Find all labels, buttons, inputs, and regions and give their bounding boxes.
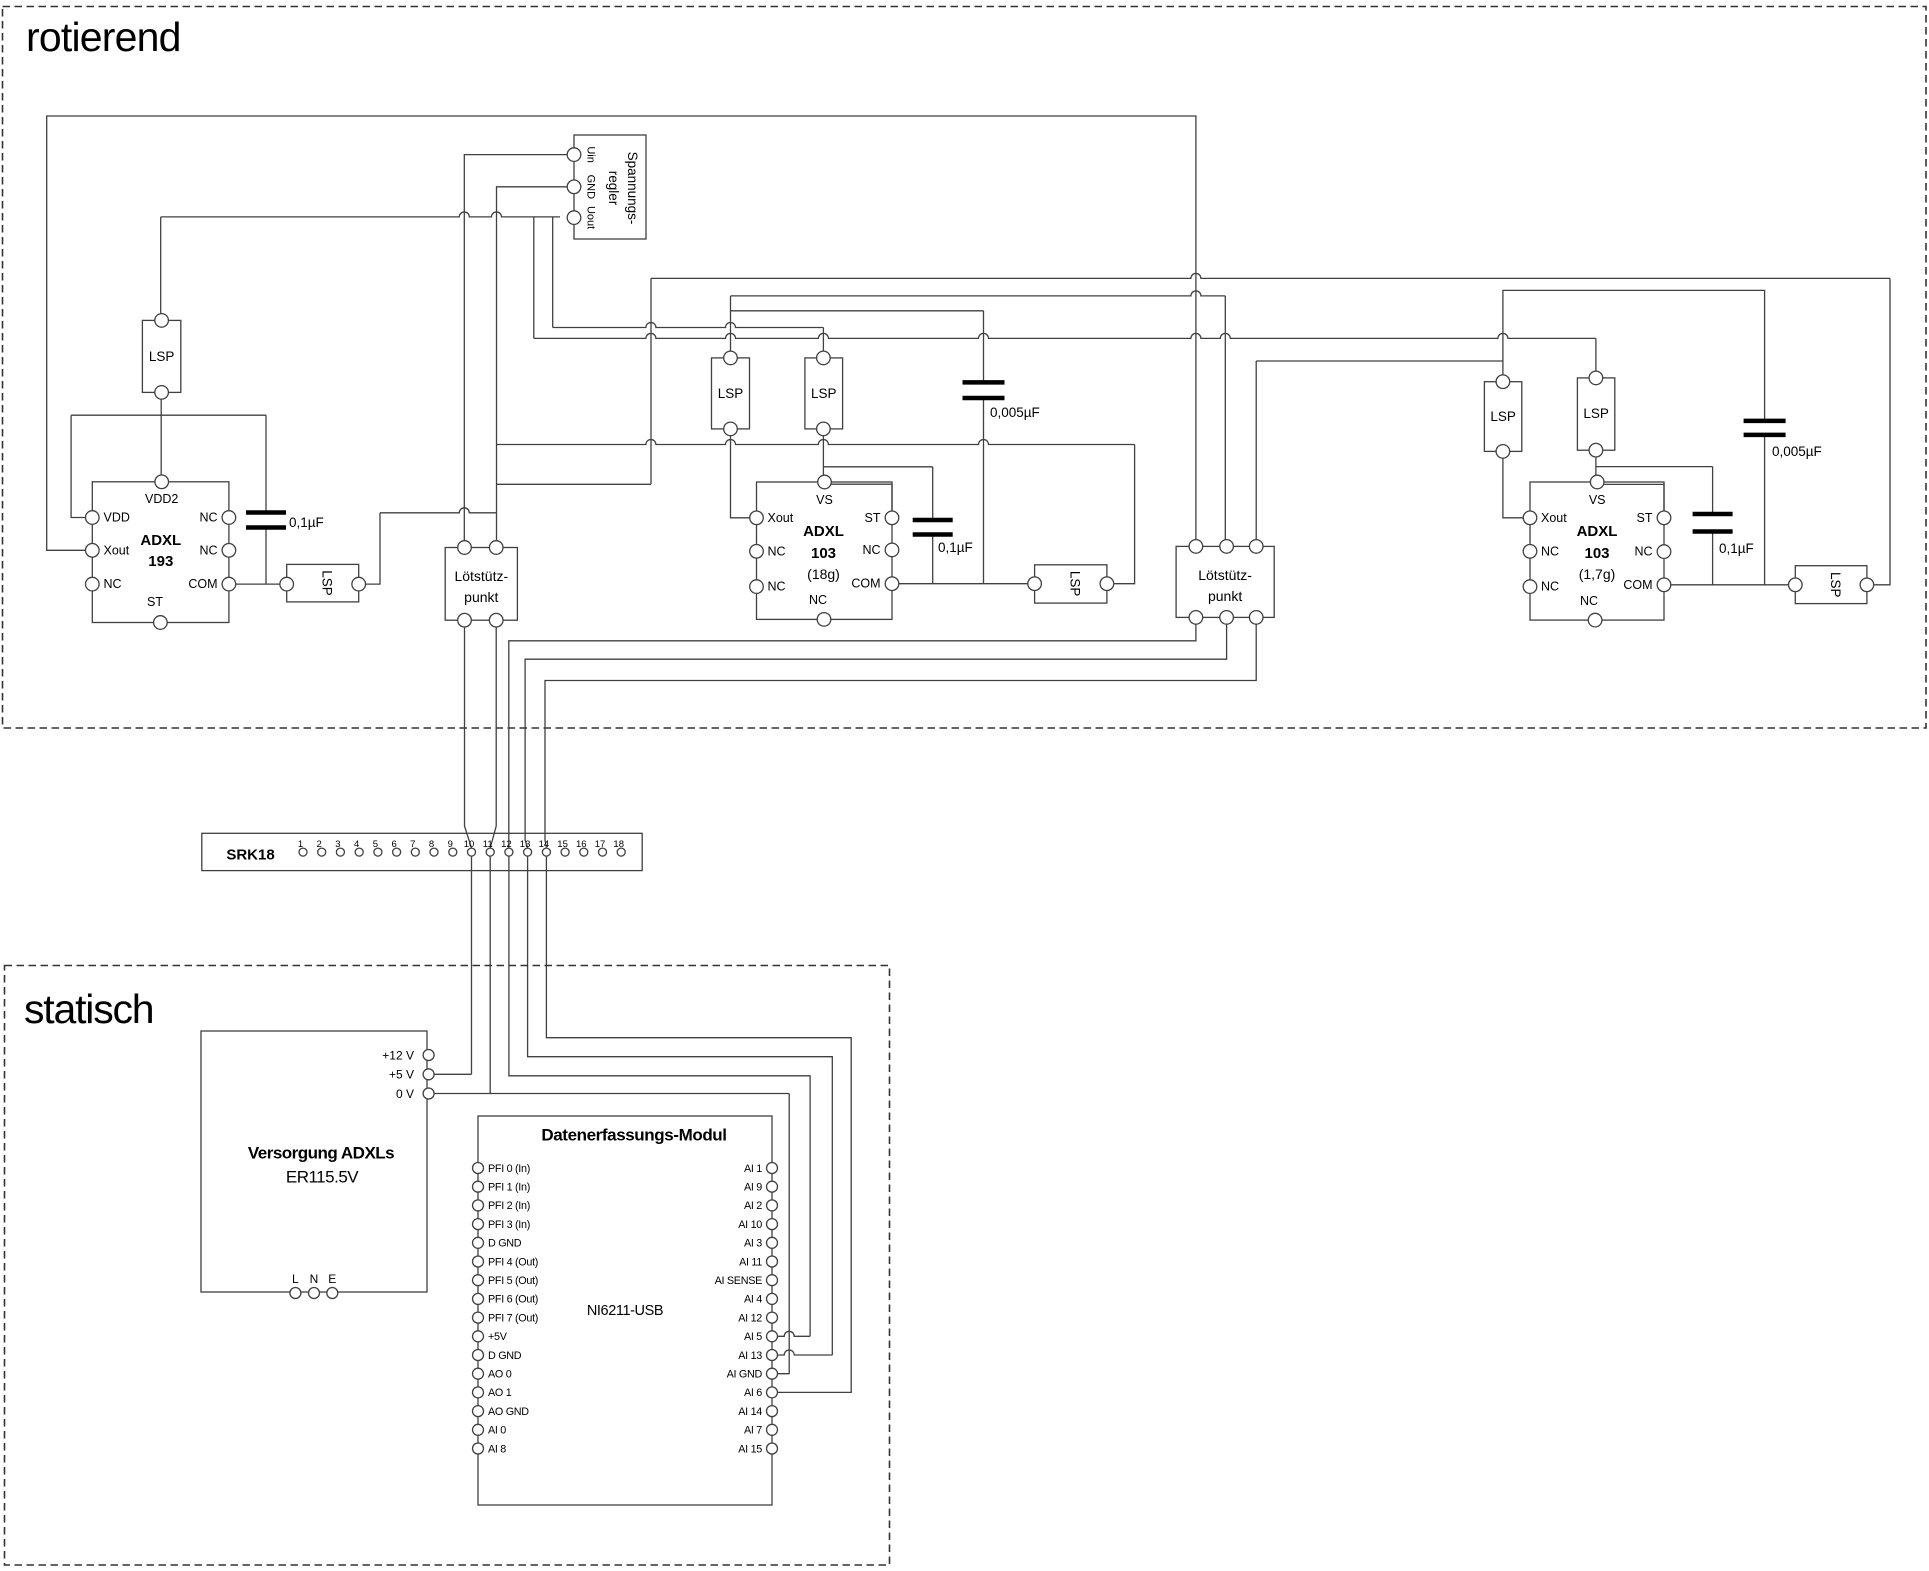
svg-text:7: 7 <box>410 839 415 850</box>
wire LSP1 bottom to VDD2 <box>160 392 162 481</box>
svg-text:0,1µF: 0,1µF <box>938 540 973 555</box>
svg-text:AI 13: AI 13 <box>738 1350 762 1362</box>
pin PFI 4 (Out) of NI6211 <box>473 1256 484 1267</box>
pin ST of ADXL103 1,7g <box>1657 511 1671 525</box>
svg-text:ST: ST <box>1637 511 1653 525</box>
pin B bottom of Loetstuetzpunkt1 <box>489 613 503 627</box>
pin N of Versorgung <box>309 1288 320 1299</box>
wire cap 0,005uF bottom leg (1,7g) <box>1764 435 1766 585</box>
svg-text:AI 3: AI 3 <box>744 1238 762 1250</box>
pin 1 of SRK18 <box>299 848 307 856</box>
pin NC right of ADXL103 18g <box>885 543 899 557</box>
svg-text:punkt: punkt <box>464 589 498 605</box>
wire SRK18 pin10 down to +5V <box>471 852 473 1074</box>
wire LSP_A(1,7g) bottom to Xout pin <box>1503 451 1523 517</box>
svg-text:LSP: LSP <box>1068 571 1083 597</box>
svg-text:AI 9: AI 9 <box>744 1182 762 1194</box>
wire h6 GND to middle cluster <box>497 440 1135 445</box>
junction block Loetstuetzpunkt1 <box>445 548 517 621</box>
wire VDD net horizontal <box>71 414 266 416</box>
wire riser Loetstuetzpunkt2 pin3 <box>1255 361 1257 546</box>
pin +12V of Versorgung <box>423 1050 434 1061</box>
pin AI 10 of NI6211 <box>767 1219 778 1230</box>
svg-text:PFI 5 (Out): PFI 5 (Out) <box>488 1275 538 1287</box>
wire ST elbow (1,7g) <box>1604 484 1664 510</box>
pin NC left of ADXL193 <box>86 577 100 591</box>
pin top of LSP_A (18g) <box>724 351 738 365</box>
svg-text:0,1µF: 0,1µF <box>1719 541 1754 556</box>
svg-text:Spannungs-: Spannungs- <box>625 152 640 225</box>
svg-text:Datenerfassungs-Modul: Datenerfassungs-Modul <box>541 1126 726 1145</box>
svg-text:13: 13 <box>520 839 531 850</box>
pin left of LSP_C <box>1028 577 1042 591</box>
pin 12 of SRK18 <box>505 848 513 856</box>
svg-text:NI6211-USB: NI6211-USB <box>587 1303 663 1319</box>
svg-text:(18g): (18g) <box>807 566 840 582</box>
wire net Xout-ADXL193 (top route) <box>47 116 1196 550</box>
svg-text:12: 12 <box>501 839 512 850</box>
DAQ module Datenerfassungs-Modul NI6211-USB <box>478 1116 772 1505</box>
svg-text:LSP: LSP <box>320 570 335 596</box>
pin 16 of SRK18 <box>580 848 588 856</box>
pin AI 6 of NI6211 <box>767 1387 778 1398</box>
solder point LSP_A (18g) <box>712 358 750 429</box>
svg-text:COM: COM <box>851 577 880 591</box>
pin Xout of ADXL193 <box>86 544 100 558</box>
svg-text:regler: regler <box>606 171 621 206</box>
pin ST of ADXL103 18g <box>885 511 899 525</box>
svg-text:AI 5: AI 5 <box>744 1331 762 1343</box>
pin PFI 1 (In) of NI6211 <box>473 1181 484 1192</box>
svg-text:Lötstütz-: Lötstütz- <box>1198 567 1252 583</box>
pin 4 of SRK18 <box>355 848 363 856</box>
pin +5V of NI6211 <box>473 1331 484 1342</box>
svg-text:PFI 2 (In): PFI 2 (In) <box>488 1200 530 1212</box>
pin Xout of ADXL103 1,7g <box>1523 511 1537 525</box>
wire h2 Xout18g horizontal <box>731 291 1226 296</box>
solder point LSP2 <box>287 564 359 602</box>
pin AI 4 of NI6211 <box>767 1293 778 1304</box>
pin NC left2 of ADXL103 1,7g <box>1523 580 1537 594</box>
pin VDD2 of ADXL193 <box>155 475 169 489</box>
svg-text:NC: NC <box>1541 580 1559 594</box>
svg-text:AI 15: AI 15 <box>738 1443 762 1455</box>
svg-text:+5 V: +5 V <box>389 1068 414 1082</box>
wire COM18g to LSP_C <box>899 583 1035 585</box>
svg-text:statisch: statisch <box>24 986 153 1032</box>
pin D GND of NI6211 <box>473 1350 484 1361</box>
svg-text:Xout: Xout <box>104 543 130 557</box>
wire h4 Uout rail to LSP_B(18g) <box>553 323 824 328</box>
svg-text:+12 V: +12 V <box>382 1048 414 1062</box>
pin top of LSP_A (1,7g) <box>1496 375 1510 389</box>
solder point LSP_C (1,7g) <box>1795 566 1867 604</box>
svg-text:Uin: Uin <box>585 146 597 163</box>
capacitor 0,005uF at ADXL103 1,7g <box>1744 419 1786 424</box>
pin 7 of SRK18 <box>411 848 419 856</box>
pin 8 of SRK18 <box>430 848 438 856</box>
wire Loetstuetzpunkt1 pinA to SRK18 pin10 <box>465 620 472 848</box>
svg-text:COM: COM <box>1623 578 1652 592</box>
wire LSP_B(1,7g) bottom to VS pin <box>1595 450 1597 475</box>
svg-text:ADXL: ADXL <box>803 523 844 540</box>
pin B top of Loetstuetzpunkt1 <box>489 541 503 555</box>
wire h4 down to LSP_B(18g) top <box>822 328 824 358</box>
svg-text:PFI 3 (In): PFI 3 (In) <box>488 1219 530 1231</box>
svg-text:ER115.5V: ER115.5V <box>286 1168 359 1187</box>
svg-text:10: 10 <box>464 839 475 850</box>
wire COM1,7g to LSP_C' <box>1671 584 1795 586</box>
svg-text:+5V: +5V <box>488 1331 508 1343</box>
svg-text:LSP: LSP <box>1583 406 1609 421</box>
pin Uout of U1 <box>567 211 581 225</box>
pin COM of ADXL103 1,7g <box>1657 578 1671 592</box>
pin 11 of SRK18 <box>486 848 494 856</box>
svg-text:D GND: D GND <box>488 1350 522 1362</box>
wire h5 Uout rail to LSP_B' <box>534 333 1596 338</box>
svg-text:NC: NC <box>1580 594 1598 608</box>
pin 1 top of Loetstuetzpunkt2 <box>1189 540 1203 554</box>
svg-text:8: 8 <box>429 839 434 850</box>
svg-text:NC: NC <box>199 511 217 525</box>
svg-text:0,005µF: 0,005µF <box>990 405 1040 420</box>
wire Loetstuetzpunkt2 pin2 to SRK18 pin13 <box>525 617 1227 848</box>
svg-text:ST: ST <box>865 511 881 525</box>
wire COM193 to LSP2 <box>236 583 287 585</box>
frame rotierend section <box>3 7 1927 729</box>
svg-text:LSP: LSP <box>811 386 837 401</box>
svg-text:AI 2: AI 2 <box>744 1200 762 1212</box>
pin 14 of SRK18 <box>542 848 550 856</box>
wire net Uin: regulator to Loetstuetzpunkt1 pinA <box>464 155 567 548</box>
pin +5V of Versorgung <box>423 1069 434 1080</box>
wire h7 GND branch <box>497 483 652 485</box>
svg-text:Lötstütz-: Lötstütz- <box>454 568 508 584</box>
svg-text:AI 10: AI 10 <box>738 1219 762 1231</box>
svg-text:L: L <box>292 1272 299 1286</box>
wire Loetstuetzpunkt2 pin1 to SRK18 pin12 <box>509 617 1196 848</box>
svg-text:PFI 6 (Out): PFI 6 (Out) <box>488 1294 538 1306</box>
wire stub AI5 with hop <box>778 1331 811 1336</box>
connector SRK18 <box>202 833 642 870</box>
pin AI 12 of NI6211 <box>767 1312 778 1323</box>
power supply Versorgung ADXLs ER115.5V <box>201 1031 427 1292</box>
pin NC right2 of ADXL193 <box>222 544 236 558</box>
wire h1 GND top rail to right cluster <box>651 273 1890 278</box>
svg-text:LSP: LSP <box>1490 409 1516 424</box>
pin 3 bottom of Loetstuetzpunkt2 <box>1249 611 1263 625</box>
pin bottom of LSP_B (18g) <box>817 422 831 436</box>
pin AI 7 of NI6211 <box>767 1424 778 1435</box>
pin AI 2 of NI6211 <box>767 1200 778 1211</box>
svg-text:11: 11 <box>483 839 493 850</box>
pin AI 13 of NI6211 <box>767 1350 778 1361</box>
wire SRK18 pin14 to AI6 <box>546 852 851 1392</box>
wire LSP2-right to GND vertical <box>380 508 497 513</box>
svg-text:103: 103 <box>1584 545 1609 562</box>
wire Uout branch T1 down <box>533 217 535 339</box>
svg-text:rotierend: rotierend <box>26 14 181 60</box>
svg-text:Versorgung ADXLs: Versorgung ADXLs <box>248 1144 394 1163</box>
pin bottom of LSP_B (1,7g) <box>1589 443 1603 457</box>
svg-text:PFI 1 (In): PFI 1 (In) <box>488 1182 530 1194</box>
svg-text:AI 0: AI 0 <box>488 1425 506 1437</box>
svg-text:Xout: Xout <box>768 511 794 525</box>
svg-text:Xout: Xout <box>1541 511 1567 525</box>
capacitor 0,1uF at ADXL103 1,7g <box>1693 512 1733 517</box>
svg-text:AI 12: AI 12 <box>738 1312 762 1324</box>
pin right of LSP_C (1,7g) <box>1860 578 1874 592</box>
pin left of LSP_C (1,7g) <box>1789 578 1803 592</box>
svg-text:VDD2: VDD2 <box>145 492 178 506</box>
wire 0V down to AI GND <box>778 1094 790 1374</box>
svg-text:E: E <box>328 1272 336 1286</box>
pin COM of ADXL103 18g <box>885 577 899 591</box>
wire LSP_A(18g) bottom to Xout pin <box>731 429 750 518</box>
wire LSP_A(1,7g) riser to cap 0,005uF <box>1503 290 1765 421</box>
svg-text:15: 15 <box>557 839 568 850</box>
wire Uout branch T2 down <box>552 217 554 328</box>
wire SRK18 pin12 to AI5 (vertical+horizontal) <box>509 852 810 1336</box>
pin AO 1 of NI6211 <box>473 1387 484 1398</box>
junction block Loetstuetzpunkt2 <box>1176 546 1274 617</box>
pin AI 14 of NI6211 <box>767 1406 778 1417</box>
accelerometer ADXL193 <box>92 482 229 623</box>
solder point LSP_B (1,7g) <box>1577 378 1614 450</box>
svg-text:0,1µF: 0,1µF <box>289 515 324 530</box>
wire VS branch to cap 0,1uF (18g) <box>823 466 932 468</box>
wire h3 branch to 0,005uF cap <box>731 310 984 312</box>
svg-text:AI 4: AI 4 <box>744 1294 762 1306</box>
pin AI 5 of NI6211 <box>767 1331 778 1342</box>
capacitor 0,005uF at ADXL103 18g <box>963 380 1005 385</box>
wire cap 0,1uF bottom leg (18g) <box>932 535 934 584</box>
svg-text:NC: NC <box>199 543 217 557</box>
pin AI 1 of NI6211 <box>767 1163 778 1174</box>
svg-text:LSP: LSP <box>718 386 744 401</box>
accelerometer ADXL103 (1,7g) <box>1530 482 1664 620</box>
pin 3 top of Loetstuetzpunkt2 <box>1249 540 1263 554</box>
svg-text:AI 8: AI 8 <box>488 1443 506 1455</box>
svg-text:5: 5 <box>373 839 378 850</box>
pin top of LSP_B (18g) <box>817 351 831 365</box>
pin top of LSP_B (1,7g) <box>1589 371 1603 385</box>
svg-text:COM: COM <box>188 577 217 591</box>
svg-text:SRK18: SRK18 <box>226 847 274 864</box>
pin 9 of SRK18 <box>449 848 457 856</box>
pin AI GND of NI6211 <box>767 1368 778 1379</box>
svg-text:NC: NC <box>768 580 786 594</box>
pin right of LSP2 <box>352 577 366 591</box>
wire h3 down to cap 0,005uF top <box>983 311 985 383</box>
wire VDD net left leg <box>71 415 85 517</box>
svg-text:PFI 0 (In): PFI 0 (In) <box>488 1163 530 1175</box>
pin bottom of LSP_A (18g) <box>724 422 738 436</box>
pin VS of ADXL103 1,7g <box>1590 475 1604 489</box>
svg-text:AO GND: AO GND <box>488 1406 529 1418</box>
pin PFI 3 (In) of NI6211 <box>473 1219 484 1230</box>
pin L of Versorgung <box>290 1288 301 1299</box>
svg-text:AO 0: AO 0 <box>488 1369 512 1381</box>
wire SRK18 pin13 to AI13 <box>528 852 833 1355</box>
accelerometer ADXL103 (18g) <box>757 482 893 619</box>
svg-text:LSP: LSP <box>1828 572 1843 598</box>
pin AI 0 of NI6211 <box>473 1424 484 1435</box>
wire h7 riser <box>650 278 652 484</box>
pin AI 8 of NI6211 <box>473 1443 484 1454</box>
svg-text:ADXL: ADXL <box>1577 523 1618 540</box>
svg-text:AI 6: AI 6 <box>744 1387 762 1399</box>
pin PFI 6 (Out) of NI6211 <box>473 1293 484 1304</box>
pin NC bottom of ADXL103 18g <box>817 613 831 627</box>
pin ST of ADXL193 <box>154 616 168 630</box>
wire Loetstuetzpunkt2 pin3 to SRK18 pin14 <box>545 617 1256 848</box>
pin NC left1 of ADXL103 1,7g <box>1523 545 1537 559</box>
pin AI SENSE of NI6211 <box>767 1275 778 1286</box>
pin VS of ADXL103 18g <box>818 475 832 489</box>
svg-text:14: 14 <box>539 839 550 850</box>
svg-text:AI GND: AI GND <box>727 1369 763 1381</box>
svg-text:9: 9 <box>448 839 453 850</box>
wire cap 0,005uF bottom leg (18g) <box>983 398 985 584</box>
svg-text:VS: VS <box>816 493 833 507</box>
pin 15 of SRK18 <box>561 848 569 856</box>
pin bottom of LSP_A (1,7g) <box>1496 445 1510 459</box>
wire net GND: regulator down <box>497 187 568 548</box>
svg-text:ADXL: ADXL <box>140 532 181 549</box>
wire Uout down to LSP1 top <box>160 217 162 321</box>
svg-text:1: 1 <box>298 839 303 850</box>
solder point LSP_A (1,7g) <box>1484 382 1521 452</box>
svg-text:ST: ST <box>147 595 163 609</box>
svg-text:VDD: VDD <box>104 511 130 525</box>
pin AI 11 of NI6211 <box>767 1256 778 1267</box>
pin D GND of NI6211 <box>473 1237 484 1248</box>
pin AI 3 of NI6211 <box>767 1237 778 1248</box>
svg-text:193: 193 <box>148 553 173 570</box>
svg-text:Uout: Uout <box>585 206 597 229</box>
svg-text:AO 1: AO 1 <box>488 1387 512 1399</box>
svg-text:4: 4 <box>354 839 359 850</box>
svg-text:NC: NC <box>104 577 122 591</box>
wire 0V rail <box>434 1093 789 1095</box>
wire VS branch to cap 0,1uF (1,7g) <box>1596 466 1713 468</box>
wire cap 0,1uF bottom leg <box>265 528 267 585</box>
pin AI 9 of NI6211 <box>767 1181 778 1192</box>
svg-text:AI SENSE: AI SENSE <box>715 1275 763 1287</box>
wire VDD net to cap 0,1uF top <box>265 415 267 512</box>
svg-text:AI 11: AI 11 <box>739 1256 762 1268</box>
wire h2 down to Loetstuetzpunkt2 pin2 <box>1224 296 1226 547</box>
pin 3 of SRK18 <box>336 848 344 856</box>
voltage regulator U1 Spannungsregler <box>574 135 646 239</box>
pin bottom of LSP1 <box>155 386 169 400</box>
svg-text:NC: NC <box>809 593 827 607</box>
wire +5V to pin10 riser <box>434 1073 471 1075</box>
pin 17 of SRK18 <box>599 848 607 856</box>
pin PFI 5 (Out) of NI6211 <box>473 1275 484 1286</box>
pin AO GND of NI6211 <box>473 1406 484 1417</box>
svg-text:NC: NC <box>1634 545 1652 559</box>
wire ST elbow (18g) <box>831 484 892 511</box>
pin top of LSP1 <box>155 314 169 328</box>
svg-text:PFI 4 (Out): PFI 4 (Out) <box>488 1256 538 1268</box>
pin PFI 0 (In) of NI6211 <box>473 1163 484 1174</box>
svg-text:punkt: punkt <box>1208 588 1242 604</box>
pin Uin of U1 <box>567 148 581 162</box>
svg-text:6: 6 <box>391 839 396 850</box>
pin 0V of Versorgung <box>423 1088 434 1099</box>
pin VDD of ADXL193 <box>86 511 100 525</box>
pin 2 bottom of Loetstuetzpunkt2 <box>1220 611 1234 625</box>
svg-text:LSP: LSP <box>149 349 175 364</box>
wire LSP_A(18g) top riser <box>730 296 732 358</box>
svg-text:GND: GND <box>585 175 597 200</box>
pin 13 of SRK18 <box>524 848 532 856</box>
pin 6 of SRK18 <box>393 848 401 856</box>
pin NC right of ADXL103 1,7g <box>1657 545 1671 559</box>
solder point LSP1 <box>142 320 180 392</box>
wire LSP_B(18g) bottom to VS pin <box>822 429 824 475</box>
pin 5 of SRK18 <box>374 848 382 856</box>
pin right of LSP_C <box>1100 577 1114 591</box>
pin 18 of SRK18 <box>617 848 625 856</box>
wire h6 down to LSP_C right pin <box>1114 445 1134 584</box>
solder point LSP_B (18g) <box>805 358 843 429</box>
pin NC right1 of ADXL193 <box>222 511 236 525</box>
svg-text:0 V: 0 V <box>396 1087 414 1101</box>
svg-text:NC: NC <box>768 544 786 558</box>
pin NC left1 of ADXL103 18g <box>750 545 764 559</box>
wire down to cap 0,1uF top (1,7g) <box>1712 467 1714 514</box>
pin AO 0 of NI6211 <box>473 1368 484 1379</box>
svg-text:(1,7g): (1,7g) <box>1579 566 1616 582</box>
wire h5 down to LSP_B'(1,7g) top <box>1595 338 1597 378</box>
solder point LSP_C (18g) <box>1035 565 1107 603</box>
pin E of Versorgung <box>327 1288 338 1299</box>
wire stub AI13 with hop <box>778 1350 833 1355</box>
pin PFI 7 (Out) of NI6211 <box>473 1312 484 1323</box>
svg-text:AI 14: AI 14 <box>738 1406 762 1418</box>
frame statisch section <box>5 966 890 1566</box>
pin GND of U1 <box>567 180 581 194</box>
pin A top of Loetstuetzpunkt1 <box>458 541 472 555</box>
wire Loetstuetzpunkt2 pin3 branch <box>1256 360 1503 362</box>
svg-text:0,005µF: 0,005µF <box>1772 444 1822 459</box>
pin NC bottom of ADXL103 1,7g <box>1588 613 1602 627</box>
svg-text:AI 7: AI 7 <box>744 1425 762 1437</box>
wire LSP2 right riser <box>359 513 380 584</box>
pin NC left2 of ADXL103 18g <box>750 580 764 594</box>
svg-text:16: 16 <box>576 839 587 850</box>
svg-text:103: 103 <box>811 545 836 562</box>
wire Loetstuetzpunkt1 pinB to SRK18 pin11 <box>490 620 496 848</box>
svg-text:AI 1: AI 1 <box>744 1163 762 1175</box>
pin 1 bottom of Loetstuetzpunkt2 <box>1189 611 1203 625</box>
svg-text:17: 17 <box>595 839 606 850</box>
svg-text:D GND: D GND <box>488 1238 522 1250</box>
capacitor 0,1uF at ADXL193 <box>246 510 286 515</box>
wire cap 0,1uF bottom leg (1,7g) <box>1712 532 1714 585</box>
svg-text:PFI 7 (Out): PFI 7 (Out) <box>488 1312 538 1324</box>
svg-text:N: N <box>310 1272 319 1286</box>
capacitor 0,1uF at ADXL103 18g <box>913 518 953 523</box>
svg-text:3: 3 <box>335 839 340 850</box>
pin 2 top of Loetstuetzpunkt2 <box>1220 540 1234 554</box>
pin left of LSP2 <box>280 577 294 591</box>
pin AI 15 of NI6211 <box>767 1443 778 1454</box>
pin 10 of SRK18 <box>468 848 476 856</box>
